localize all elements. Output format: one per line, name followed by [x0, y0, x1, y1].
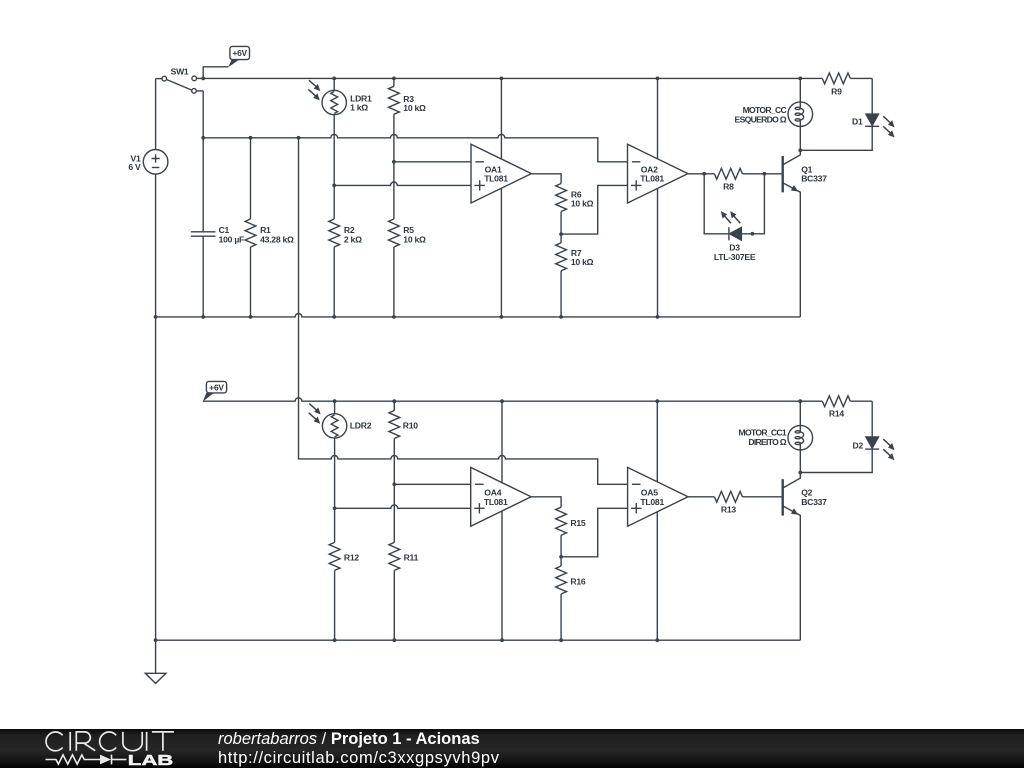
wire V1 bottom to ground spine — [155, 174, 157, 673]
wire junction to OA5 non-inverting input — [561, 508, 628, 557]
svg-text:D2: D2 — [853, 441, 864, 451]
svg-text:R10: R10 — [403, 421, 418, 431]
svg-text:R15: R15 — [570, 518, 585, 528]
svg-text:BC337: BC337 — [801, 497, 827, 507]
svg-text:TL081: TL081 — [484, 497, 508, 507]
svg-text:+6V: +6V — [233, 48, 248, 58]
transistor Q2 BC337 — [783, 473, 801, 641]
resistor R5 10k — [389, 219, 400, 317]
wire OA4 output to R15 — [531, 497, 561, 507]
resistor R16 — [556, 557, 567, 640]
arrows out of LED D3 — [718, 209, 742, 225]
svg-text:10 kΩ: 10 kΩ — [403, 103, 426, 113]
svg-text:LDR2: LDR2 — [350, 421, 372, 431]
wire R15 to junction — [560, 535, 562, 557]
svg-text:R16: R16 — [570, 576, 585, 586]
wire R6 to junction — [560, 212, 562, 235]
resistor R8 — [714, 168, 742, 179]
resistor R11 — [389, 542, 400, 640]
svg-text:10 kΩ: 10 kΩ — [403, 234, 426, 244]
wire motor branch top — [799, 78, 801, 102]
footer bar — [0, 729, 1024, 768]
op-amp OA2 TL081 — [628, 144, 688, 203]
photoresistor LDR1 — [322, 78, 346, 219]
wire +6V flag stem (top) — [203, 67, 228, 79]
resistor R2 2k — [329, 219, 340, 317]
svg-text:R9: R9 — [831, 86, 842, 96]
+6V flag (top) box — [228, 46, 249, 67]
wire node to lower section and OA5 inverting input — [299, 138, 628, 485]
svg-text:6 V: 6 V — [128, 162, 141, 172]
switch SW1 — [156, 76, 204, 93]
footer title text — [218, 730, 480, 749]
wire OA4 non-inverting input — [335, 505, 471, 508]
wire switch throw down to C1 — [202, 91, 204, 232]
wire OA1 output to R6 — [531, 174, 561, 184]
svg-text:+6V: +6V — [209, 382, 224, 392]
svg-text:10 kΩ: 10 kΩ — [571, 199, 594, 209]
LED D2 — [800, 401, 879, 472]
svg-text:BC337: BC337 — [801, 174, 827, 184]
svg-text:100 µF: 100 µF — [219, 234, 244, 244]
motor MOTOR_CC ESQUERDO — [788, 102, 813, 150]
wire OA2 output — [688, 173, 715, 175]
arrows into LDR1 — [306, 78, 322, 102]
resistor R7 10k — [556, 234, 567, 317]
wire lower +6V rail — [203, 398, 800, 401]
wire R8 to Q1 base — [742, 173, 782, 175]
footer url text — [218, 749, 500, 768]
resistor R13 — [714, 491, 742, 502]
wire OA5 output — [688, 496, 714, 498]
ground — [145, 673, 166, 683]
wire R13 to Q2 base — [742, 496, 782, 498]
op-amp OA4 TL081 — [471, 467, 531, 526]
svg-text:2 kΩ: 2 kΩ — [344, 234, 362, 244]
svg-text:LAB: LAB — [128, 752, 174, 767]
svg-text:10 kΩ: 10 kΩ — [571, 257, 594, 267]
motor MOTOR_CC1 DIREITO — [788, 425, 813, 472]
svg-text:R8: R8 — [723, 181, 734, 191]
arrows into LDR2 — [307, 401, 323, 425]
resistor R14 — [800, 396, 872, 407]
svg-text:SW1: SW1 — [171, 66, 189, 76]
svg-text:D1: D1 — [852, 116, 863, 126]
svg-text:D3: D3 — [729, 242, 740, 252]
resistor R6 10k — [556, 184, 567, 212]
resistor R1 43.28k — [245, 138, 256, 317]
svg-text:ESQUERDO Ω: ESQUERDO Ω — [735, 114, 787, 124]
wire OA1 non-inverting input — [334, 182, 471, 185]
wire top +6V rail — [197, 77, 801, 79]
transistor Q1 BC337 — [783, 150, 801, 317]
capacitor C1 — [191, 232, 216, 317]
wire OA5 power supply vertical — [656, 401, 658, 640]
resistor R15 — [556, 507, 567, 535]
svg-text:TL081: TL081 — [640, 174, 664, 184]
CircuitLab logo — [46, 732, 174, 751]
svg-text:43.28 kΩ: 43.28 kΩ — [260, 234, 294, 244]
arrows out of LED D1 — [881, 114, 897, 139]
wire feedback junction to OA2 non-inverting input — [561, 185, 627, 234]
voltage source V1 — [143, 150, 168, 175]
resistor R12 — [329, 542, 340, 640]
op-amp OA5 TL081 — [628, 467, 688, 526]
wire bottom rail of lower section — [156, 639, 801, 641]
wire OA2 power supply vertical — [657, 78, 659, 317]
svg-text:1 kΩ: 1 kΩ — [350, 103, 368, 113]
wire motor2 branch top — [799, 401, 801, 425]
svg-text:R12: R12 — [344, 553, 359, 563]
svg-text:TL081: TL081 — [640, 497, 664, 507]
wire OA1 inverting input — [394, 161, 471, 163]
wire OA4 inverting input — [394, 483, 470, 485]
svg-text:R14: R14 — [829, 409, 844, 419]
resistor R3 10k — [389, 78, 400, 219]
wire V1 top — [155, 79, 157, 150]
resistor R10 — [389, 401, 400, 542]
wire bottom rail of top section — [156, 313, 801, 316]
wire switched rail y=137.8 to OA2 inverting input — [203, 134, 627, 161]
resistor R9 — [800, 73, 872, 84]
wire OA1 power supply vertical — [500, 78, 502, 317]
+6V flag (bottom) box — [203, 381, 227, 401]
svg-text:DIREITO Ω: DIREITO Ω — [748, 437, 786, 447]
svg-text:LTL-307EE: LTL-307EE — [714, 252, 756, 262]
svg-text:R13: R13 — [721, 504, 736, 514]
svg-text:R11: R11 — [404, 553, 419, 563]
wire OA4 power supply vertical — [501, 401, 503, 640]
op-amp OA1 TL081 — [471, 144, 531, 203]
photoresistor LDR2 — [322, 401, 346, 542]
LED D1 — [800, 78, 879, 150]
LED D3 LTL-307EE loop — [704, 174, 764, 241]
svg-text:TL081: TL081 — [484, 174, 508, 184]
arrows out of LED D2 — [881, 437, 897, 462]
